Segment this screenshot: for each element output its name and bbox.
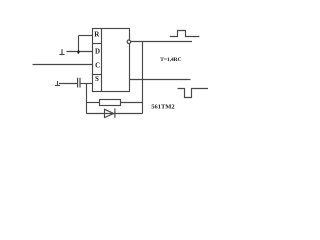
wire R input <box>79 35 93 37</box>
op-amp U1 flip-flop body <box>93 29 130 92</box>
node Q-bar inversion bubble <box>127 40 131 44</box>
node junction D/R branch <box>77 50 79 54</box>
wire S input left of capacitor <box>59 83 78 85</box>
resistor R1 <box>100 100 121 106</box>
wire feedback left vertical <box>86 84 88 114</box>
wire pin-column divider <box>101 29 103 92</box>
wire branch R-D <box>78 36 80 52</box>
wire Q output <box>130 79 191 81</box>
diode VD1 <box>105 108 115 118</box>
svg-text:D: D <box>95 48 100 56</box>
waveform output pulse bottom <box>178 89 208 98</box>
wire Q-bar output <box>131 41 192 43</box>
svg-text:561ТМ2: 561ТМ2 <box>151 104 174 111</box>
svg-text:C: C <box>95 62 100 70</box>
wire resistor row right <box>121 102 143 104</box>
wire diode row <box>87 113 143 115</box>
svg-text:T=1,4RC: T=1,4RC <box>160 57 181 63</box>
wire S input right of capacitor <box>80 83 93 85</box>
wire cell divider R/D <box>93 43 102 45</box>
capacitor C1 <box>78 78 80 88</box>
wire C input <box>33 64 93 66</box>
wire feedback right vertical <box>142 42 144 114</box>
svg-text:S: S <box>95 75 99 83</box>
ground near S input <box>55 81 60 86</box>
ground near D input <box>59 49 64 54</box>
wire D input <box>67 51 93 53</box>
wire cell divider C/S <box>93 74 102 76</box>
wire resistor row left <box>87 102 100 104</box>
waveform output pulse top <box>170 31 200 37</box>
